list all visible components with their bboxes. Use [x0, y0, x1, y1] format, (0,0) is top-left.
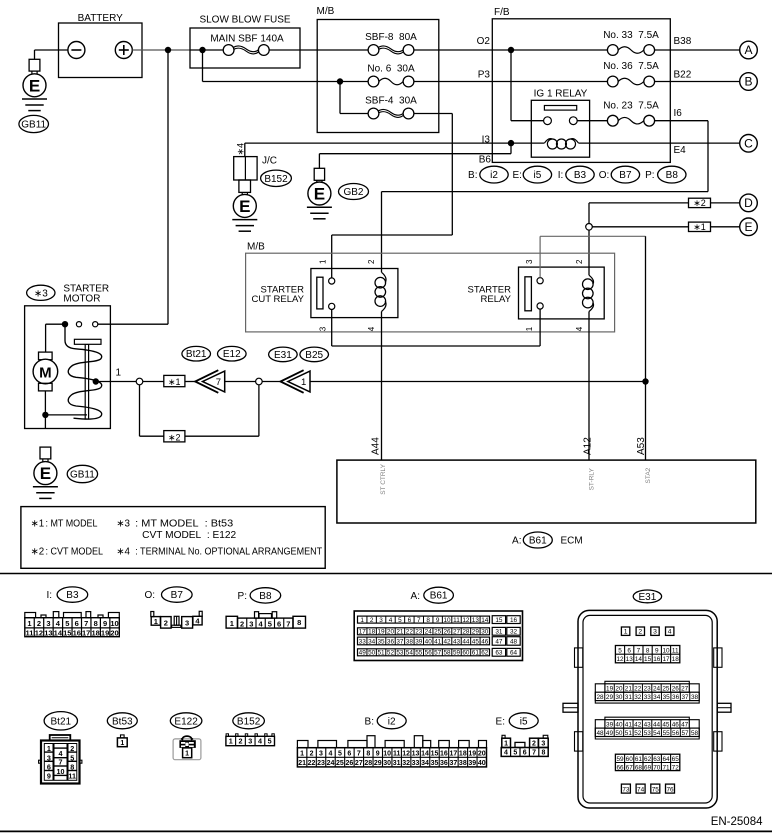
svg-text:: MT MODEL : Bt53: : MT MODEL : Bt53 [135, 519, 234, 530]
svg-text:56: 56 [672, 730, 680, 737]
svg-text:53: 53 [396, 650, 404, 657]
pin name STA2 [645, 467, 652, 483]
ECM box [337, 460, 756, 523]
connector B3 label [46, 587, 87, 602]
ground GB2 [307, 168, 332, 219]
wire *1 to arrow Bt21/E12 [185, 381, 195, 383]
svg-text:35: 35 [378, 639, 386, 646]
svg-text:24: 24 [327, 760, 335, 767]
node M/B No.6 junction [337, 78, 343, 84]
svg-text:14: 14 [54, 628, 63, 637]
node option junction 2 [256, 378, 263, 385]
connector B152 pinout [226, 734, 275, 746]
IG 1 relay contacts [544, 117, 578, 125]
wire cut relay pin 3 to starter relay pin 1 [332, 309, 540, 346]
svg-text:∗1: ∗1 [31, 519, 45, 530]
pin O2 [477, 36, 491, 47]
fuse box F/B [492, 7, 670, 162]
arrow connector 1 [281, 370, 311, 393]
svg-text:4: 4 [258, 737, 262, 746]
svg-text:54: 54 [653, 730, 661, 737]
svg-text:27: 27 [453, 629, 461, 636]
wire to *1 box [143, 381, 164, 383]
connector i2 label [365, 713, 407, 729]
pin name ST CTRLY [380, 463, 387, 494]
svg-text:32: 32 [634, 694, 642, 701]
svg-text:5: 5 [70, 753, 74, 762]
svg-text:11: 11 [453, 617, 460, 624]
ground GB11 (starter motor) [33, 447, 58, 498]
svg-text:∗2: ∗2 [168, 432, 181, 442]
svg-text:3: 3 [379, 617, 383, 624]
svg-text:8: 8 [426, 617, 430, 624]
connector i5 pinout [501, 735, 548, 756]
svg-text:RELAY: RELAY [481, 294, 512, 305]
wire B6 to ground GB2 [319, 143, 511, 168]
svg-text:: MT MODEL: : MT MODEL [46, 519, 98, 530]
svg-text:E: E [239, 197, 250, 216]
wire SBF-4 output to starter cut relay pin 1 [332, 114, 453, 278]
pin 4 (starter relay) [575, 326, 584, 331]
svg-text:47: 47 [495, 639, 503, 646]
node starter motor bottom junction [42, 412, 48, 418]
pin 3 (starter relay) [525, 259, 534, 264]
svg-text:1: 1 [116, 368, 122, 379]
svg-text:1: 1 [300, 751, 304, 758]
svg-text:35: 35 [431, 760, 439, 767]
svg-text:61: 61 [635, 756, 643, 763]
svg-text:E31: E31 [274, 350, 292, 361]
wire *1 to E [711, 226, 740, 228]
relay box M/B [246, 242, 615, 332]
svg-text:59: 59 [453, 650, 461, 657]
svg-text:59: 59 [616, 756, 624, 763]
svg-text:10: 10 [383, 751, 391, 758]
svg-text:O:: O: [599, 170, 610, 181]
connector E31 pin cells [595, 627, 699, 793]
connector E122 label [170, 713, 202, 729]
node option junction 1 [136, 378, 143, 385]
ECM reference A: B61 [512, 532, 583, 548]
svg-text:16: 16 [440, 751, 448, 758]
fuse No. 36 7.5A [603, 61, 659, 87]
svg-text:1: 1 [120, 740, 124, 747]
svg-text:∗3: ∗3 [34, 288, 48, 299]
svg-text:37: 37 [681, 694, 689, 701]
node battery junction [165, 47, 171, 53]
svg-text:2: 2 [37, 619, 41, 628]
svg-text:18: 18 [459, 751, 467, 758]
svg-text:4: 4 [329, 751, 333, 758]
svg-text:63: 63 [653, 756, 661, 763]
bottom border [0, 830, 772, 832]
svg-text:6: 6 [627, 648, 631, 655]
svg-text:50: 50 [615, 730, 623, 737]
svg-text:5: 5 [398, 617, 402, 624]
wire junction down to SBF-4 [340, 82, 368, 114]
svg-text:1: 1 [47, 744, 51, 753]
svg-text:13: 13 [412, 751, 420, 758]
svg-text:64: 64 [662, 756, 670, 763]
svg-text:B8: B8 [259, 591, 272, 602]
wire option junction down to starter relay coil [588, 230, 590, 275]
svg-text:22: 22 [406, 629, 414, 636]
svg-text:11: 11 [26, 628, 34, 637]
pin 1 (starter cut relay) [319, 259, 328, 264]
svg-text:75: 75 [652, 786, 660, 793]
pin 1 (starter relay) [525, 326, 534, 331]
svg-text:M/B: M/B [317, 6, 335, 17]
starter cut relay contact bar [317, 277, 323, 309]
svg-text:38: 38 [459, 760, 467, 767]
svg-text:SLOW BLOW FUSE: SLOW BLOW FUSE [199, 14, 290, 25]
svg-text:22: 22 [308, 760, 316, 767]
label *1 box (MT) [164, 375, 185, 387]
svg-text:Bt53: Bt53 [112, 716, 133, 727]
svg-text:6: 6 [47, 763, 51, 772]
svg-text:15: 15 [63, 628, 71, 637]
node slow blow fuse junction [199, 47, 205, 53]
connector GB2 label [339, 184, 369, 200]
pin 3 (starter cut relay) [319, 326, 328, 331]
svg-text:E31: E31 [639, 592, 657, 603]
svg-text:38: 38 [691, 694, 699, 701]
svg-text:8: 8 [646, 648, 650, 655]
svg-text:37: 37 [396, 639, 404, 646]
starter solenoid plunger [74, 339, 101, 419]
svg-text:33: 33 [644, 694, 652, 701]
svg-text:CUT RELAY: CUT RELAY [252, 294, 305, 305]
svg-text:2: 2 [310, 751, 314, 758]
svg-text:66: 66 [616, 764, 624, 771]
wire I6 to starter cut relay coil [382, 121, 709, 273]
connector B61 pinout [354, 611, 522, 661]
pin 1 (starter motor) [116, 368, 122, 379]
svg-text:8: 8 [297, 618, 301, 627]
legend box [21, 507, 325, 569]
svg-text:25: 25 [336, 760, 344, 767]
svg-text:I6: I6 [674, 108, 683, 119]
svg-text:ECM: ECM [561, 536, 583, 547]
svg-text:A53: A53 [636, 437, 647, 455]
pin 4 (starter cut relay) [367, 326, 376, 331]
svg-text:2: 2 [240, 620, 244, 629]
svg-text:27: 27 [355, 760, 363, 767]
svg-text:E:: E: [512, 170, 521, 181]
wire *2 to D [711, 202, 740, 204]
pin A53 [636, 437, 647, 455]
svg-text:2: 2 [164, 619, 168, 628]
ground below J/C [232, 180, 257, 231]
wire terminal 1 to option circle [96, 381, 136, 383]
fuse No. 6 30A [367, 64, 415, 87]
svg-text:5: 5 [65, 619, 69, 628]
svg-text:2: 2 [532, 740, 536, 747]
node F/B O2 junction [508, 47, 514, 53]
svg-text:7: 7 [59, 758, 63, 767]
svg-text:18: 18 [91, 628, 99, 637]
svg-text:EN-25084: EN-25084 [711, 816, 763, 828]
connector B7 label [144, 587, 192, 602]
wire B38 to A [655, 49, 740, 51]
pin A12 [582, 437, 593, 455]
svg-text:39: 39 [415, 639, 423, 646]
pin name ST-RLY [589, 467, 596, 490]
svg-text:Bt21: Bt21 [186, 349, 207, 360]
connector i5 label [496, 713, 539, 729]
svg-text:4: 4 [504, 750, 508, 757]
connector E31 label [633, 590, 661, 603]
svg-text:i2: i2 [388, 716, 396, 727]
svg-text:36: 36 [440, 760, 448, 767]
wire junction down to No.6 fuse feed [203, 50, 369, 82]
svg-text:A:: A: [411, 591, 420, 602]
svg-text:8: 8 [94, 619, 98, 628]
svg-text:GB11: GB11 [70, 470, 95, 481]
svg-text:37: 37 [449, 760, 457, 767]
svg-text:2: 2 [70, 744, 74, 753]
svg-text:4: 4 [389, 617, 393, 624]
svg-text:51: 51 [625, 730, 633, 737]
svg-text:15: 15 [495, 617, 503, 624]
svg-text:E122: E122 [174, 716, 198, 727]
connector i2 pinout [297, 736, 486, 767]
svg-text:18: 18 [368, 629, 376, 636]
svg-text:9: 9 [655, 648, 659, 655]
svg-text:F/B: F/B [494, 7, 510, 18]
svg-text:60: 60 [626, 756, 634, 763]
fuse SBF-8 80A [365, 32, 417, 55]
svg-text:12: 12 [462, 617, 470, 624]
arrow connector 7 [195, 370, 225, 393]
svg-text:B7: B7 [171, 590, 184, 601]
label *4 optional terminal [236, 143, 246, 156]
svg-text:3: 3 [319, 751, 323, 758]
svg-text:32: 32 [510, 629, 518, 636]
label *2 box (D row) [689, 198, 711, 208]
pin I6 [674, 108, 683, 119]
fuse MAIN SBF 140A [210, 34, 284, 56]
connector B152 label [261, 170, 292, 186]
svg-text:40: 40 [478, 760, 486, 767]
svg-text:30: 30 [615, 694, 623, 701]
svg-text:8: 8 [366, 751, 370, 758]
svg-text:13: 13 [626, 656, 634, 663]
svg-text:1: 1 [360, 617, 364, 624]
junction connector J/C B152 [234, 143, 257, 180]
svg-text:No. 23 7.5A: No. 23 7.5A [603, 100, 659, 111]
svg-text:31: 31 [393, 760, 401, 767]
relay IG 1 RELAY [531, 89, 589, 158]
svg-text:MOTOR: MOTOR [63, 294, 100, 305]
svg-text:∗2: ∗2 [693, 198, 706, 208]
svg-text:31: 31 [625, 694, 633, 701]
svg-text:3: 3 [319, 326, 328, 331]
svg-text:J/C: J/C [262, 156, 277, 167]
svg-text:38: 38 [406, 639, 414, 646]
svg-text:57: 57 [434, 650, 442, 657]
svg-text:1: 1 [504, 740, 508, 747]
svg-text:40: 40 [425, 639, 433, 646]
svg-text:20: 20 [387, 629, 395, 636]
starter cut relay coil [375, 272, 386, 311]
svg-text:D: D [744, 196, 753, 210]
svg-text:B61: B61 [529, 536, 547, 547]
relay STARTER CUT RELAY [252, 269, 398, 318]
svg-text:48: 48 [510, 639, 518, 646]
svg-text:B25: B25 [305, 350, 323, 361]
battery [59, 13, 143, 78]
svg-text:Bt21: Bt21 [51, 716, 72, 727]
connector E31 pinout body [563, 610, 731, 808]
connector Bt21 label [182, 346, 211, 361]
svg-text:16: 16 [510, 617, 518, 624]
svg-text:61: 61 [472, 650, 480, 657]
slow blow fuse box [190, 14, 300, 68]
wire I3 line with IG1 relay coil to E4 [245, 139, 740, 149]
svg-text:8: 8 [542, 750, 546, 757]
svg-text:32: 32 [402, 760, 410, 767]
svg-text:E: E [314, 185, 325, 204]
svg-text:52: 52 [634, 730, 642, 737]
svg-text:19: 19 [101, 628, 109, 637]
svg-text:2: 2 [239, 737, 243, 746]
svg-text:34: 34 [368, 639, 376, 646]
svg-text:1: 1 [319, 259, 328, 264]
svg-text:P:: P: [238, 591, 247, 602]
svg-text:76: 76 [666, 786, 674, 793]
node A53 junction [642, 378, 648, 384]
svg-text:50: 50 [368, 650, 376, 657]
svg-text:25: 25 [434, 629, 442, 636]
svg-text:21: 21 [396, 629, 404, 636]
svg-text:49: 49 [606, 730, 614, 737]
wire arrow 1 to A53 junction [310, 381, 646, 383]
svg-text:1: 1 [230, 619, 234, 628]
svg-text:10: 10 [110, 619, 118, 628]
starter relay contacts [537, 278, 543, 310]
svg-text:3: 3 [653, 629, 657, 636]
wire IG 1 relay contact to fuse No.23 [577, 120, 607, 122]
wire battery negative to ground [35, 50, 68, 59]
svg-text:12: 12 [616, 656, 624, 663]
svg-text:1: 1 [525, 326, 534, 331]
svg-text:69: 69 [644, 764, 652, 771]
svg-text:∗1: ∗1 [168, 377, 181, 387]
svg-text:B6: B6 [479, 155, 492, 166]
svg-text:73: 73 [622, 786, 630, 793]
svg-text:28: 28 [462, 629, 470, 636]
svg-text:P3: P3 [478, 69, 491, 80]
svg-text:MAIN SBF 140A: MAIN SBF 140A [210, 34, 284, 45]
svg-text:15: 15 [431, 751, 439, 758]
svg-text:B61: B61 [430, 591, 448, 602]
svg-text:6: 6 [523, 750, 527, 757]
svg-text:48: 48 [596, 730, 604, 737]
svg-text:B3: B3 [66, 590, 79, 601]
svg-text:23: 23 [317, 760, 325, 767]
svg-text:B8: B8 [666, 170, 679, 181]
svg-text:17: 17 [359, 629, 367, 636]
wire MAIN SBF output to M/B [269, 49, 368, 51]
svg-text:SBF-8 80A: SBF-8 80A [365, 32, 417, 43]
svg-text:2: 2 [638, 629, 642, 636]
svg-text:O:: O: [144, 590, 155, 601]
svg-text:60: 60 [462, 650, 470, 657]
svg-text:∗4: ∗4 [116, 547, 130, 558]
svg-text:13: 13 [44, 628, 52, 637]
svg-text:34: 34 [421, 760, 429, 767]
svg-text:STA2: STA2 [645, 467, 652, 483]
svg-text:IG 1 RELAY: IG 1 RELAY [534, 89, 588, 100]
svg-text:62: 62 [481, 650, 489, 657]
wire O2 junction to IG 1 relay contact [511, 50, 544, 121]
svg-text:∗4: ∗4 [236, 143, 246, 156]
wire No.6 output (P3) [414, 81, 608, 83]
svg-text:7: 7 [286, 620, 290, 629]
svg-text:No. 33 7.5A: No. 33 7.5A [603, 30, 659, 41]
svg-text:7: 7 [532, 750, 536, 757]
connector GB11 label (starter) [67, 465, 97, 482]
svg-text:55: 55 [663, 730, 671, 737]
svg-text:72: 72 [672, 764, 680, 771]
svg-text:46: 46 [481, 639, 489, 646]
ground GB11 (battery) [22, 59, 47, 110]
connector Bt21 pinout [39, 735, 82, 784]
wire to arrow E31/B25 [262, 381, 280, 383]
fuse No. 23 7.5A [603, 100, 659, 126]
svg-text:6: 6 [75, 619, 79, 628]
svg-text:65: 65 [672, 756, 680, 763]
svg-text:17: 17 [449, 751, 457, 758]
svg-text:31: 31 [495, 629, 503, 636]
pin 2 (starter relay) [575, 259, 584, 264]
svg-text:9: 9 [103, 619, 107, 628]
pin B22 [674, 69, 692, 80]
svg-text:i5: i5 [520, 716, 528, 727]
connector B7 pinout [151, 611, 202, 628]
divider line [0, 573, 772, 575]
svg-text:45: 45 [472, 639, 480, 646]
pin I3 [482, 134, 491, 145]
svg-text:A: A [744, 43, 752, 57]
svg-text:1: 1 [185, 751, 189, 758]
svg-text:30: 30 [383, 760, 391, 767]
svg-text:30: 30 [481, 629, 489, 636]
starter solenoid coil [45, 324, 101, 419]
svg-text:26: 26 [345, 760, 353, 767]
pin P3 [478, 69, 491, 80]
svg-text:29: 29 [374, 760, 382, 767]
fuse No. 33 7.5A [603, 30, 659, 55]
fuse box M/B [317, 6, 439, 133]
svg-text:7: 7 [84, 619, 88, 628]
svg-text:57: 57 [681, 730, 689, 737]
svg-text:58: 58 [444, 650, 452, 657]
svg-text:12: 12 [35, 628, 43, 637]
svg-text:6: 6 [408, 617, 412, 624]
svg-text:74: 74 [637, 786, 645, 793]
svg-text:41: 41 [434, 639, 442, 646]
svg-text:42: 42 [444, 639, 452, 646]
svg-text:9: 9 [436, 617, 440, 624]
battery negative terminal [68, 42, 85, 59]
starter cut relay contacts [329, 278, 335, 310]
svg-text:GB2: GB2 [343, 187, 363, 198]
svg-text:B:: B: [365, 716, 374, 727]
connector Bt53 pinout [117, 735, 127, 747]
svg-text:3: 3 [249, 620, 253, 629]
